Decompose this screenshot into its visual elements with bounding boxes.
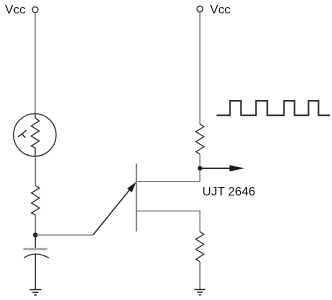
- photoresistor R1 circle: [14, 114, 57, 157]
- wire T1 to photoresistor: [34, 13, 36, 114]
- UJT B1 lead: [136, 211, 200, 232]
- resistor R2: [31, 186, 39, 216]
- waveform: [217, 101, 331, 116]
- UJT Q1 base bar: [135, 164, 137, 232]
- wire R2 to node A: [34, 215, 36, 236]
- svg-text:Vcc: Vcc: [5, 3, 26, 17]
- junction node B: [198, 166, 203, 171]
- output arrowhead: [230, 165, 245, 171]
- resistor R3: [196, 124, 204, 154]
- wire node A to emitter (horizontal): [35, 234, 93, 236]
- wire R4 to ground: [199, 262, 201, 290]
- wire T2 to R3: [199, 12, 201, 124]
- Vcc terminal T1: [32, 7, 38, 13]
- output arrow line: [202, 167, 231, 169]
- capacitor C1 curved plate: [24, 254, 49, 258]
- wire R3 to B2 corner: [199, 154, 201, 181]
- ground GND2: [194, 290, 205, 295]
- ground GND1: [30, 290, 42, 295]
- wire photoresistor to R2: [34, 156, 36, 185]
- svg-text:UJT 2646: UJT 2646: [202, 184, 255, 198]
- svg-text:Vcc: Vcc: [210, 2, 231, 16]
- UJT B2 lead: [136, 181, 200, 183]
- resistor R4: [196, 232, 204, 262]
- Vcc terminal T2: [197, 6, 203, 12]
- blue connection pixel: [136, 181, 138, 183]
- emitter wire diagonal: [93, 188, 132, 236]
- photoresistor lambda symbol: [18, 130, 27, 138]
- junction node A: [33, 233, 38, 238]
- capacitor C1 top plate: [23, 248, 47, 250]
- emitter arrowhead: [127, 182, 136, 193]
- wire C1 to ground: [34, 253, 36, 289]
- wire node A to C1: [34, 236, 36, 248]
- photoresistor R1 zigzag: [31, 114, 39, 157]
